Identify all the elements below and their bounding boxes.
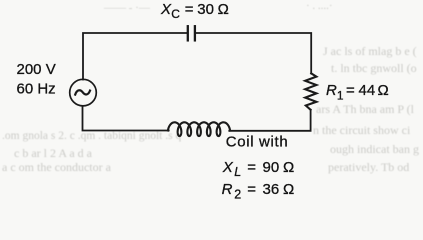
svg-text:—— - ·—: —— - ·— (103, 2, 151, 14)
svg-text:peratively. Tb od: peratively. Tb od (328, 160, 409, 174)
svg-text:J ac ls of mlag b e (: J ac ls of mlag b e ( (323, 44, 417, 58)
svg-text:n the circuit show ci: n the circuit show ci (313, 123, 411, 137)
capacitor C (XC) right plate (194, 26, 196, 40)
svg-text:ough indicat ban g: ough indicat ban g (330, 142, 419, 156)
wire from coil to bottom-left corner, up to source bottom (83, 106, 169, 131)
wire from resistor R1 down to bottom-right corner, left to coil (229, 110, 310, 131)
coil (inductor, XL and R2) (168, 122, 230, 136)
capacitor C (XC) left plate (187, 26, 189, 40)
svg-text:ars A Th bna am P (l: ars A Th bna am P (l (316, 102, 415, 116)
AC source sine wave symbol (75, 90, 90, 94)
svg-text:t. ln tbc gnwoll (o: t. ln tbc gnwoll (o (331, 61, 417, 75)
svg-text:a c om the conductor a: a c om the conductor a (2, 160, 112, 174)
svg-text:· . ....·: · . ....· (306, 0, 333, 12)
svg-text:60 Hz: 60 Hz (17, 80, 56, 97)
resistor R1 zigzag (305, 73, 316, 109)
svg-text:c b ar l 2 A a d a: c b ar l 2 A a d a (14, 146, 93, 160)
svg-text:Coil with: Coil with (226, 134, 289, 151)
svg-text:200 V: 200 V (17, 61, 56, 78)
wire from source top, up the left side and across the top to capacitor (83, 33, 187, 80)
AC source circle (70, 79, 97, 106)
svg-text:.om gnola s 2. c .qm . tabiqni: .om gnola s 2. c .qm . tabiqni gnolt .s … (2, 130, 181, 142)
wire from capacitor to top-right corner, down to resistor R1 (196, 33, 311, 73)
